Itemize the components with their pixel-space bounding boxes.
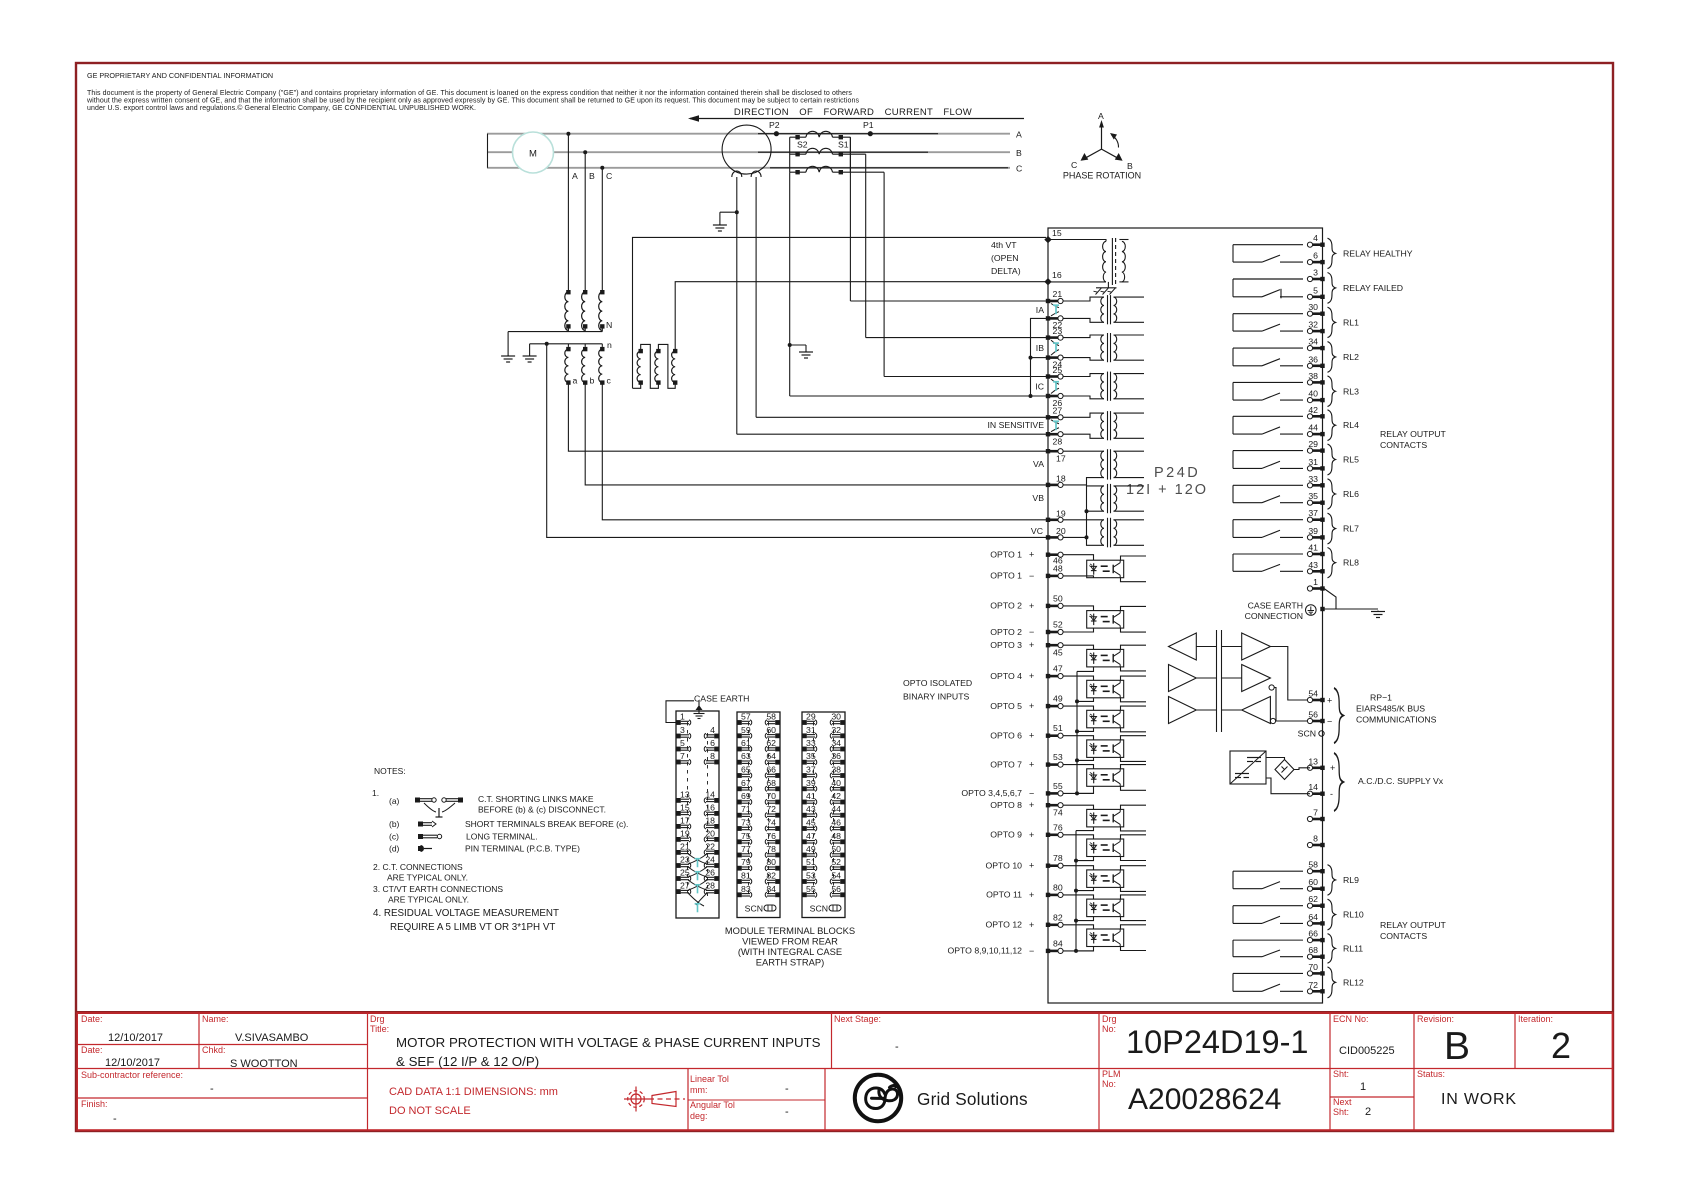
terminal 16 diamond: [1044, 278, 1051, 285]
svg-text:19: 19: [1056, 509, 1066, 519]
svg-text:DIRECTION OF FORWARD CURREN: DIRECTION OF FORWARD CURRENT FLOW: [734, 107, 972, 118]
wire S2 common to terminal 26: [790, 395, 1046, 397]
terminal B3 41/42: [802, 799, 817, 804]
svg-text:Grid Solutions: Grid Solutions: [917, 1089, 1028, 1109]
svg-text:42: 42: [831, 791, 841, 801]
svg-text:CASE EARTH: CASE EARTH: [694, 694, 749, 704]
terminal B3 51/52: [802, 866, 817, 871]
svg-text:RL3: RL3: [1343, 386, 1359, 396]
terminal 8: [1307, 842, 1324, 847]
svg-text:14: 14: [1308, 782, 1318, 792]
svg-text:OPTO 5: OPTO 5: [990, 701, 1022, 711]
wire comms to terminal 54: [1270, 647, 1310, 701]
svg-text:GE PROPRIETARY AND CONFIDENTIA: GE PROPRIETARY AND CONFIDENTIAL INFORMAT…: [87, 71, 273, 80]
CT shorting link bottom: [688, 893, 707, 906]
svg-text:+: +: [1029, 601, 1034, 611]
note symbol a: [415, 798, 420, 803]
terminal 58: [1307, 869, 1324, 874]
svg-text:+: +: [1029, 760, 1034, 770]
svg-text:CAD DATA 1:1 DIMENSIONS: mm: CAD DATA 1:1 DIMENSIONS: mm: [389, 1086, 558, 1098]
svg-text:50: 50: [1053, 593, 1063, 603]
svg-text:30: 30: [831, 712, 841, 722]
ring CT (core balance): [722, 125, 771, 174]
terminal 56: [1307, 718, 1324, 723]
terminal B1 19/20: [676, 837, 691, 842]
svg-text:RL2: RL2: [1343, 352, 1359, 362]
svg-text:10P24D19-1: 10P24D19-1: [1126, 1024, 1309, 1060]
optocoupler U7: [1087, 769, 1124, 787]
terminal 60: [1307, 886, 1324, 891]
optocoupler U9: [1087, 839, 1124, 857]
svg-text:NOTES:: NOTES:: [374, 766, 406, 776]
svg-text:1: 1: [1360, 1081, 1366, 1093]
bus A: [487, 133, 1010, 135]
svg-text:-: -: [113, 1113, 117, 1125]
VT star point N bus: [567, 326, 569, 331]
input transformer IB: [1046, 335, 1063, 340]
svg-text:20: 20: [1056, 526, 1066, 536]
phase rotation diagram: [1101, 124, 1103, 149]
svg-text:PIN TERMINAL (P.C.B. TYPE): PIN TERMINAL (P.C.B. TYPE): [465, 844, 580, 854]
svg-text:n: n: [607, 340, 612, 350]
svg-text:+: +: [1029, 550, 1034, 560]
relay failed contact: [1233, 279, 1303, 297]
terminal B2 57/58: [737, 720, 752, 725]
terminal B3 29/30: [802, 720, 817, 725]
svg-text:RP−1: RP−1: [1370, 693, 1392, 703]
VT primary wiring: [1063, 450, 1104, 452]
svg-text:BEFORE (b) & (c) DISCONNECT.: BEFORE (b) & (c) DISCONNECT.: [478, 805, 606, 815]
CT shorting link: [688, 854, 707, 864]
terminal B2 79/80: [737, 866, 752, 871]
terminal 47: [1046, 674, 1063, 679]
terminal 1: [1307, 586, 1324, 591]
svg-text:13: 13: [680, 789, 690, 799]
optocoupler U4: [1087, 680, 1124, 698]
svg-text:Next Stage:: Next Stage:: [834, 1014, 881, 1024]
svg-text:27: 27: [680, 881, 690, 891]
svg-text:12/10/2017: 12/10/2017: [108, 1032, 163, 1044]
svg-text:4: 4: [710, 725, 715, 735]
svg-text:45: 45: [806, 818, 816, 828]
svg-text:55: 55: [806, 884, 816, 894]
rectifier bridge: [1275, 760, 1294, 780]
power supply unit: [1230, 751, 1266, 784]
terminal 37: [1307, 517, 1324, 522]
svg-text:1.: 1.: [372, 788, 379, 798]
svg-text:RL1: RL1: [1343, 317, 1359, 327]
terminal B1 5/6: [676, 746, 691, 751]
svg-text:80: 80: [1053, 882, 1063, 892]
svg-text:44: 44: [1308, 423, 1318, 433]
svg-text:−: −: [1029, 627, 1034, 637]
svg-text:+: +: [1029, 640, 1034, 650]
svg-text:69: 69: [741, 791, 751, 801]
relay contact RL11: [1233, 940, 1303, 957]
svg-text:43: 43: [806, 804, 816, 814]
4th VT earth: [1107, 282, 1109, 288]
svg-text:68: 68: [766, 778, 776, 788]
svg-text:LONG TERMINAL.: LONG TERMINAL.: [466, 832, 538, 842]
svg-text:82: 82: [1053, 912, 1063, 922]
terminal 36: [1307, 363, 1324, 368]
svg-text:25: 25: [1053, 365, 1063, 375]
svg-text:OPTO 3,4,5,6,7: OPTO 3,4,5,6,7: [961, 788, 1022, 798]
svg-text:77: 77: [741, 844, 751, 854]
wire comms to terminal 56: [1276, 720, 1310, 722]
svg-text:56: 56: [1308, 710, 1318, 720]
input transformer IC: [1046, 374, 1063, 379]
terminal B1 3/4: [676, 733, 691, 738]
svg-text:M: M: [529, 149, 537, 160]
VT primary coil c: [599, 292, 603, 330]
case earth symbol: [698, 701, 700, 714]
terminal B3 43/44: [802, 813, 817, 818]
svg-text:15: 15: [680, 802, 690, 812]
svg-text:1: 1: [680, 712, 685, 722]
svg-text:60: 60: [1308, 877, 1318, 887]
optocoupler U1: [1087, 560, 1124, 578]
svg-text:61: 61: [741, 738, 751, 748]
svg-text:Drg: Drg: [370, 1014, 385, 1024]
svg-text:28: 28: [705, 881, 715, 891]
svg-text:72: 72: [1308, 980, 1318, 990]
svg-text:70: 70: [1308, 962, 1318, 972]
svg-text:2. C.T. CONNECTIONS: 2. C.T. CONNECTIONS: [373, 862, 463, 872]
4th VT transformer: [1048, 240, 1106, 242]
VT primary coil squares bottom: [566, 324, 570, 328]
input transformer IA: [1046, 298, 1063, 303]
svg-text:+: +: [1029, 731, 1034, 741]
terminal 50: [1046, 603, 1063, 608]
terminal 80: [1046, 892, 1063, 897]
terminal 70: [1307, 971, 1324, 976]
terminal 31: [1307, 466, 1324, 471]
relay contact RL3: [1233, 382, 1303, 400]
svg-text:B: B: [1127, 161, 1133, 171]
svg-text:VIEWED FROM REAR: VIEWED FROM REAR: [742, 936, 838, 947]
VT secondary coil squares top: [566, 347, 570, 351]
title block grid: [198, 1013, 200, 1069]
svg-text:No:: No:: [1102, 1079, 1116, 1089]
svg-text:(OPEN: (OPEN: [991, 253, 1019, 263]
relay contact RL1: [1233, 314, 1303, 331]
terminal B1 13/14: [676, 798, 691, 803]
svg-text:62: 62: [766, 738, 776, 748]
terminal B2 69/70: [737, 799, 752, 804]
phase CT coils A: [790, 131, 851, 137]
svg-text:7: 7: [1313, 808, 1318, 818]
CT terminal squares: [795, 135, 799, 139]
svg-text:34: 34: [1308, 337, 1318, 347]
relay contact RL8: [1233, 554, 1303, 571]
terminal 42: [1307, 414, 1324, 419]
relay contact RL4: [1233, 416, 1303, 434]
svg-text:74: 74: [766, 818, 776, 828]
svg-text:24: 24: [705, 855, 715, 865]
svg-text:73: 73: [741, 818, 751, 828]
svg-text:+: +: [1029, 671, 1034, 681]
terminal 33: [1307, 483, 1324, 488]
ring CT earth tee: [735, 210, 739, 214]
svg-text:+: +: [1029, 890, 1034, 900]
svg-text:OPTO ISOLATED: OPTO ISOLATED: [903, 678, 972, 688]
svg-text:42: 42: [1308, 405, 1318, 415]
wire terminal 55: [1063, 792, 1094, 794]
svg-text:RL5: RL5: [1343, 455, 1359, 465]
svg-text:(WITH INTEGRAL CASE: (WITH INTEGRAL CASE: [738, 946, 842, 957]
svg-text:52: 52: [1053, 620, 1063, 630]
svg-text:38: 38: [1308, 371, 1318, 381]
terminal B2 65/66: [737, 773, 752, 778]
svg-text:+: +: [1029, 830, 1034, 840]
svg-text:RL12: RL12: [1343, 977, 1364, 987]
wire to terminal 24: [1031, 357, 1047, 359]
wire case earth to ground: [1323, 608, 1379, 610]
svg-text:RL7: RL7: [1343, 524, 1359, 534]
svg-text:33: 33: [806, 738, 816, 748]
VT primary coil squares top: [566, 290, 570, 294]
svg-text:37: 37: [806, 765, 816, 775]
svg-text:7: 7: [680, 751, 685, 761]
svg-text:49: 49: [806, 844, 816, 854]
svg-text:53: 53: [1053, 752, 1063, 762]
svg-text:+: +: [1029, 701, 1034, 711]
relay contact RL9: [1233, 871, 1303, 889]
terminal 68: [1307, 954, 1324, 959]
svg-text:PHASE ROTATION: PHASE ROTATION: [1063, 171, 1141, 181]
svg-text:DELTA): DELTA): [991, 266, 1021, 276]
svg-text:Date:: Date:: [81, 1045, 103, 1055]
svg-text:8: 8: [1313, 834, 1318, 844]
opto return rail 8-12: [1075, 831, 1077, 951]
terminal 52: [1046, 629, 1063, 634]
relay contact RL6: [1233, 485, 1303, 502]
svg-text:-: -: [785, 1083, 789, 1095]
svg-text:84: 84: [1053, 938, 1063, 948]
terminal B1 21/22: [676, 850, 691, 855]
svg-text:21: 21: [1053, 289, 1063, 299]
svg-text:Angular Tol: Angular Tol: [690, 1100, 735, 1110]
svg-text:31: 31: [1308, 457, 1318, 467]
svg-text:CONTACTS: CONTACTS: [1380, 440, 1427, 450]
svg-text:VB: VB: [1032, 493, 1044, 503]
svg-text:29: 29: [806, 712, 816, 722]
relay contact RL2: [1233, 348, 1303, 366]
ground (CT earth): [799, 351, 813, 358]
terminal B2 75/76: [737, 839, 752, 844]
svg-text:81: 81: [741, 871, 751, 881]
svg-text:25: 25: [680, 868, 690, 878]
wire S1-A to terminal 21: [850, 300, 1046, 302]
svg-text:This document is the property: This document is the property of General…: [87, 90, 852, 97]
svg-text:18: 18: [1056, 474, 1066, 484]
svg-text:B: B: [1016, 148, 1022, 158]
svg-text:OPTO 11: OPTO 11: [986, 890, 1022, 900]
svg-text:RL6: RL6: [1343, 489, 1359, 499]
svg-text:19: 19: [680, 828, 690, 838]
svg-text:17: 17: [1056, 454, 1066, 464]
svg-text:(b): (b): [389, 819, 400, 829]
svg-text:EARTH STRAP): EARTH STRAP): [756, 957, 825, 968]
svg-text:N: N: [606, 320, 612, 330]
svg-text:15: 15: [1052, 228, 1062, 238]
svg-text:29: 29: [1308, 439, 1318, 449]
svg-text:B: B: [589, 171, 595, 181]
svg-text:deg:: deg:: [690, 1111, 708, 1121]
svg-text:S1: S1: [838, 140, 849, 150]
phase drop wires A B C: [567, 134, 569, 292]
svg-text:76: 76: [766, 831, 776, 841]
terminal B1 17/18: [676, 824, 691, 829]
svg-text:+: +: [1029, 800, 1034, 810]
terminal block B2 outline: [737, 712, 780, 918]
svg-text:2: 2: [1551, 1025, 1571, 1066]
comms buffer row1 right: [1242, 633, 1271, 660]
VT secondary n bus: [530, 343, 603, 345]
svg-text:-: -: [1330, 789, 1333, 799]
svg-text:27: 27: [1053, 406, 1063, 416]
svg-text:under U.S. export control laws: under U.S. export control laws and regul…: [87, 104, 476, 112]
svg-text:65: 65: [741, 765, 751, 775]
svg-text:4. RESIDUAL VOLTAGE MEASURE: 4. RESIDUAL VOLTAGE MEASUREMENT: [373, 908, 559, 919]
GE logo: [855, 1075, 901, 1121]
terminal 55: [1046, 791, 1063, 796]
svg-text:78: 78: [766, 844, 776, 854]
svg-text:Drg: Drg: [1102, 1014, 1117, 1024]
terminal 51: [1046, 733, 1063, 738]
svg-text:64: 64: [766, 751, 776, 761]
bus B: [487, 151, 1010, 153]
wire terminal 84: [1063, 950, 1094, 952]
svg-text:ECN No:: ECN No:: [1333, 1014, 1369, 1024]
svg-text:without the express written co: without the express written consent of G…: [86, 98, 859, 105]
terminal 64: [1307, 921, 1324, 926]
terminal 84: [1046, 948, 1063, 953]
terminal 53: [1046, 762, 1063, 767]
svg-text:P24D: P24D: [1154, 465, 1200, 481]
svg-text:REQUIRE A 5 LIMB VT OR 3: REQUIRE A 5 LIMB VT OR 3*1PH VT: [390, 922, 555, 933]
wire comms row2: [1274, 688, 1276, 722]
svg-text:CASE EARTH: CASE EARTH: [1248, 601, 1303, 611]
svg-text:41: 41: [806, 791, 816, 801]
terminal 32: [1307, 329, 1324, 334]
svg-text:44: 44: [831, 804, 841, 814]
svg-text:c: c: [607, 376, 612, 386]
S1 drop wires: [849, 137, 851, 301]
svg-text:−: −: [1029, 788, 1034, 798]
svg-text:52: 52: [831, 857, 841, 867]
svg-text:VC: VC: [1031, 526, 1043, 536]
svg-text:CONTACTS: CONTACTS: [1380, 931, 1427, 941]
terminal 5: [1307, 294, 1324, 299]
svg-text:A.C./D.C. SUPPLY Vx: A.C./D.C. SUPPLY Vx: [1358, 776, 1444, 786]
svg-text:S2: S2: [797, 140, 808, 150]
terminal B3 31/32: [802, 733, 817, 738]
svg-text:Finish:: Finish:: [81, 1099, 108, 1109]
svg-text:EIARS485/K BUS: EIARS485/K BUS: [1356, 704, 1425, 714]
svg-text:RELAY OUTPUT: RELAY OUTPUT: [1380, 429, 1447, 439]
svg-text:67: 67: [741, 778, 751, 788]
svg-text:Iteration:: Iteration:: [1518, 1014, 1553, 1024]
note symbol d: [418, 846, 423, 851]
terminal 49: [1046, 704, 1063, 709]
svg-text:53: 53: [806, 871, 816, 881]
svg-text:A: A: [1016, 130, 1022, 140]
svg-text:OPTO 8: OPTO 8: [990, 800, 1022, 810]
terminal B3 35/36: [802, 760, 817, 765]
terminal B2 81/82: [737, 879, 752, 884]
terminal B3 37/38: [802, 773, 817, 778]
wire ring CT to terminal 28: [737, 433, 1046, 435]
svg-text:DO NOT SCALE: DO NOT SCALE: [389, 1105, 471, 1117]
optocoupler U2: [1087, 611, 1124, 629]
case earth strap bracket: [666, 701, 694, 723]
svg-text:47: 47: [1053, 664, 1063, 674]
terminal 48: [1046, 573, 1063, 578]
svg-text:IN WORK: IN WORK: [1441, 1091, 1517, 1108]
svg-text:76: 76: [1053, 822, 1063, 832]
svg-text:ARE TYPICAL ONLY.: ARE TYPICAL ONLY.: [388, 895, 469, 905]
phase CT block outline: [790, 137, 851, 172]
optocoupler U11: [1087, 899, 1124, 917]
wire S1-C to terminal 25: [884, 376, 1046, 378]
svg-text:3: 3: [1313, 268, 1318, 278]
svg-text:SCN: SCN: [1298, 729, 1316, 739]
optocoupler U8: [1087, 809, 1124, 827]
svg-text:83: 83: [741, 884, 751, 894]
VT primary coil b: [582, 292, 586, 330]
note symbol b: [418, 822, 423, 827]
svg-text:62: 62: [1308, 894, 1318, 904]
phase CT coils C: [790, 166, 884, 172]
svg-text:RL10: RL10: [1343, 910, 1364, 920]
svg-text:mm:: mm:: [690, 1085, 708, 1095]
svg-text:13: 13: [1308, 756, 1318, 766]
n earth drop: [529, 344, 531, 355]
VT secondary coil a: [565, 349, 569, 382]
terminal 45: [1046, 643, 1063, 648]
svg-text:OPTO 6: OPTO 6: [990, 731, 1022, 741]
comms buffer row2 left: [1169, 665, 1197, 692]
svg-text:RL9: RL9: [1343, 875, 1359, 885]
svg-text:5: 5: [680, 738, 685, 748]
terminal 7: [1307, 816, 1324, 821]
open delta VT coil 1: [639, 349, 643, 353]
svg-text:30: 30: [1308, 302, 1318, 312]
svg-text:23: 23: [680, 855, 690, 865]
svg-text:36: 36: [831, 751, 841, 761]
terminal B3 33/34: [802, 746, 817, 751]
svg-text:Name:: Name:: [202, 1014, 229, 1024]
svg-text:OPTO 12: OPTO 12: [985, 920, 1022, 930]
svg-text:8: 8: [710, 751, 715, 761]
B1 dashed column lines: [687, 722, 689, 896]
svg-text:MODULE TERMINAL BLOCKS: MODULE TERMINAL BLOCKS: [725, 925, 855, 936]
VT secondary coil c: [599, 349, 603, 382]
relay contact RL12: [1233, 973, 1303, 991]
relay contact RL10: [1233, 906, 1303, 924]
VT primary coil a: [565, 292, 569, 330]
svg-text:43: 43: [1308, 560, 1318, 570]
svg-text:71: 71: [741, 804, 751, 814]
ground (case earth): [1371, 611, 1385, 618]
comms buffer row1 left: [1169, 633, 1197, 660]
VT input VA: [1046, 449, 1063, 454]
direction arrow: [690, 118, 1024, 120]
terminal 62: [1307, 903, 1324, 908]
svg-text:OPTO 1: OPTO 1: [990, 571, 1022, 581]
